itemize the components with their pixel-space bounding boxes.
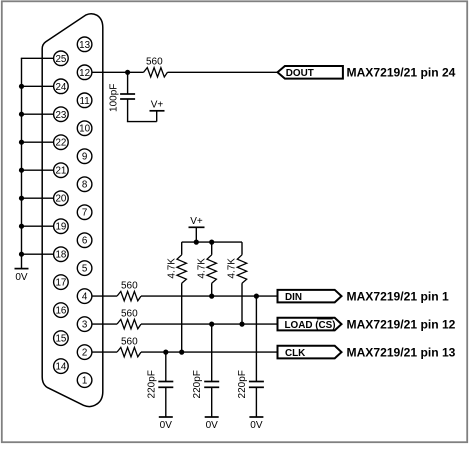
svg-text:9: 9 bbox=[82, 152, 87, 163]
svg-text:220pF: 220pF bbox=[146, 370, 157, 398]
resistor R4 4.7K pullup bbox=[181, 242, 183, 255]
svg-text:10: 10 bbox=[79, 124, 90, 135]
svg-text:16: 16 bbox=[55, 306, 66, 317]
svg-text:3: 3 bbox=[82, 320, 88, 331]
svg-text:220pF: 220pF bbox=[192, 370, 203, 398]
svg-text:560: 560 bbox=[121, 281, 138, 292]
pin 16 bbox=[54, 303, 69, 318]
svg-text:12: 12 bbox=[79, 68, 90, 79]
pin 18 bbox=[54, 247, 69, 262]
junction R5 rail bbox=[209, 240, 214, 245]
wire pin 21 to ground bus bbox=[22, 169, 55, 171]
tag DIN bbox=[278, 290, 342, 303]
svg-text:100pF: 100pF bbox=[108, 84, 119, 112]
node A junction dot bbox=[125, 70, 130, 75]
svg-text:MAX7219/21 pin 12: MAX7219/21 pin 12 bbox=[347, 317, 456, 331]
wire R1 to DOUT tag bbox=[168, 71, 278, 73]
svg-text:6: 6 bbox=[82, 236, 88, 247]
svg-text:2: 2 bbox=[82, 348, 87, 359]
svg-text:V+: V+ bbox=[190, 216, 203, 227]
pin 13 bbox=[77, 37, 92, 52]
svg-text:4.7K: 4.7K bbox=[166, 258, 177, 279]
wire pin 23 to ground bus bbox=[22, 113, 55, 115]
svg-text:23: 23 bbox=[55, 110, 66, 121]
connector J1 DB25 parallel port bbox=[42, 14, 103, 407]
wire V+ stem bbox=[195, 227, 197, 242]
pin 8 bbox=[77, 177, 92, 192]
svg-text:0V: 0V bbox=[206, 420, 219, 431]
pin 5 bbox=[77, 261, 92, 276]
wire pin 24 to ground bus bbox=[22, 85, 55, 87]
junction pin 18 bus bbox=[19, 252, 24, 257]
svg-text:560: 560 bbox=[121, 337, 138, 348]
resistor R3 560 bbox=[117, 291, 141, 300]
svg-text:MAX7219/21 pin 1: MAX7219/21 pin 1 bbox=[347, 289, 449, 303]
wire C1 to V+ bbox=[127, 121, 157, 123]
svg-text:MAX7219/21 pin 13: MAX7219/21 pin 13 bbox=[347, 345, 456, 359]
svg-text:5: 5 bbox=[82, 264, 88, 275]
tag LOAD (CS) bbox=[278, 318, 342, 331]
svg-text:22: 22 bbox=[55, 138, 66, 149]
junction pin 24 bus bbox=[19, 84, 24, 89]
svg-text:15: 15 bbox=[55, 334, 66, 345]
pin 25 bbox=[54, 51, 69, 66]
pin 17 bbox=[54, 275, 69, 290]
wire pin 3 to resistor R2 bbox=[91, 323, 117, 325]
pin 2 bbox=[77, 345, 92, 360]
svg-text:CLK: CLK bbox=[285, 348, 306, 359]
svg-text:11: 11 bbox=[80, 96, 90, 107]
tag DOUT bbox=[278, 66, 343, 79]
capacitor C1 100pF bbox=[127, 72, 129, 94]
svg-text:V+: V+ bbox=[151, 100, 164, 111]
junction pin 20 bus bbox=[19, 196, 24, 201]
ground 0V (bus) bbox=[15, 268, 29, 270]
svg-text:DIN: DIN bbox=[285, 292, 302, 303]
junction pin 21 bus bbox=[19, 168, 24, 173]
wire R2 to tag bbox=[141, 323, 278, 325]
wire pin 2 to resistor R7 bbox=[91, 351, 117, 353]
svg-text:25: 25 bbox=[55, 54, 66, 65]
junction C2 on CLK bbox=[163, 350, 168, 355]
svg-text:4.7K: 4.7K bbox=[227, 258, 238, 279]
wire pin 12 to node A bbox=[91, 71, 143, 73]
pin 20 bbox=[54, 191, 69, 206]
tag CLK bbox=[278, 346, 342, 359]
svg-text:1: 1 bbox=[82, 376, 87, 387]
junction R6 on LOAD bbox=[239, 322, 244, 327]
pin 11 bbox=[77, 93, 92, 108]
svg-text:18: 18 bbox=[55, 250, 66, 261]
svg-text:220pF: 220pF bbox=[237, 370, 248, 398]
wire pin 20 to ground bus bbox=[22, 197, 55, 199]
svg-text:13: 13 bbox=[79, 40, 90, 51]
pin 10 bbox=[77, 121, 92, 136]
wire R3 to tag bbox=[141, 295, 278, 297]
svg-text:20: 20 bbox=[55, 194, 66, 205]
ground 0V (C2) bbox=[159, 416, 173, 418]
capacitor C4 220pF bbox=[255, 296, 257, 381]
junction V+ rail bbox=[194, 240, 199, 245]
capacitor C2 220pF bbox=[165, 352, 167, 381]
svg-text:4.7K: 4.7K bbox=[196, 258, 207, 279]
svg-text:0V: 0V bbox=[15, 272, 28, 283]
pin 12 bbox=[77, 65, 92, 80]
wire pin 19 to ground bus bbox=[22, 225, 55, 227]
wire pin 18 to ground bus bbox=[22, 253, 55, 255]
pin 15 bbox=[54, 331, 69, 346]
svg-text:8: 8 bbox=[82, 180, 88, 191]
wire ground bus vertical bbox=[21, 58, 23, 268]
svg-text:560: 560 bbox=[121, 309, 138, 320]
pin 14 bbox=[54, 359, 69, 374]
ground 0V (C4) bbox=[249, 416, 263, 418]
ground 0V (C3) bbox=[205, 416, 219, 418]
wire pin 4 to resistor R3 bbox=[91, 295, 117, 297]
wire pullup rail bbox=[182, 241, 242, 243]
pin 24 bbox=[54, 79, 69, 94]
svg-text:14: 14 bbox=[55, 362, 66, 373]
svg-text:7: 7 bbox=[82, 208, 87, 219]
junction pin 22 bus bbox=[19, 140, 24, 145]
resistor R5 4.7K pullup bbox=[211, 242, 213, 255]
pin 7 bbox=[77, 205, 92, 220]
pin 19 bbox=[54, 219, 69, 234]
svg-text:MAX7219/21 pin 24: MAX7219/21 pin 24 bbox=[347, 66, 456, 80]
resistor R1 560 (DOUT) bbox=[144, 68, 168, 77]
pin 3 bbox=[77, 317, 92, 332]
resistor R7 560 bbox=[117, 347, 141, 356]
pin 9 bbox=[77, 149, 92, 164]
svg-text:560: 560 bbox=[146, 56, 163, 67]
pin 4 bbox=[77, 289, 92, 304]
junction R5 on DIN bbox=[209, 294, 214, 299]
svg-text:24: 24 bbox=[55, 82, 66, 93]
pin 22 bbox=[54, 135, 69, 150]
pin 6 bbox=[77, 233, 92, 248]
svg-text:0V: 0V bbox=[250, 420, 263, 431]
pin 21 bbox=[54, 163, 69, 178]
svg-text:DOUT: DOUT bbox=[286, 68, 314, 79]
svg-text:19: 19 bbox=[55, 222, 66, 233]
svg-text:0V: 0V bbox=[160, 420, 173, 431]
junction R4 on CLK bbox=[179, 350, 184, 355]
junction C4 on DIN bbox=[254, 294, 259, 299]
wire R7 to tag bbox=[141, 351, 278, 353]
svg-text:LOAD (CS): LOAD (CS) bbox=[285, 320, 336, 331]
overline CS bbox=[317, 318, 333, 320]
junction pin 19 bus bbox=[19, 224, 24, 229]
svg-text:21: 21 bbox=[55, 166, 66, 177]
svg-text:4: 4 bbox=[82, 292, 88, 303]
svg-text:17: 17 bbox=[55, 278, 66, 289]
resistor R2 560 bbox=[117, 319, 141, 328]
wire pin 25 to ground bus bbox=[21, 57, 54, 59]
capacitor C3 220pF bbox=[211, 324, 213, 381]
pin 23 bbox=[54, 107, 69, 122]
junction pin 23 bus bbox=[19, 112, 24, 117]
wire pin 22 to ground bus bbox=[22, 141, 55, 143]
junction C3 on LOAD bbox=[209, 322, 214, 327]
resistor R6 4.7K pullup bbox=[241, 242, 243, 255]
pin 1 bbox=[77, 373, 92, 388]
